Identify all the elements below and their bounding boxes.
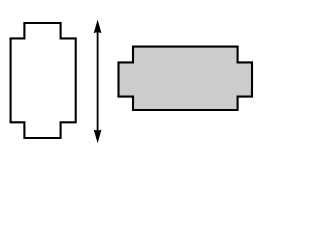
left notched part outline (vertical, white fill)	[11, 23, 76, 138]
right notched part (horizontal, gray fill)	[119, 47, 253, 110]
arrowhead bottom	[94, 130, 102, 144]
dimension arrow shaft (vertical double-headed arrow)	[97, 30, 99, 133]
arrowhead top	[94, 20, 102, 34]
